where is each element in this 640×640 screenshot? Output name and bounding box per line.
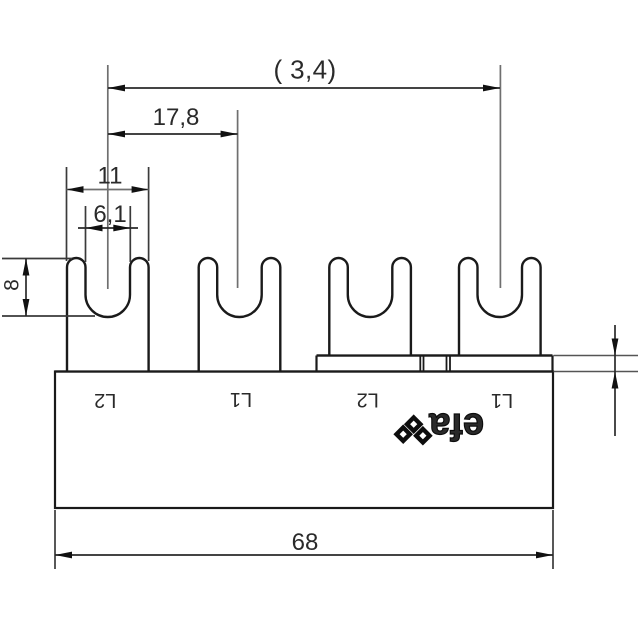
dimension 11 line (67, 189, 149, 191)
label L2 pole 1 (rotated 180) (94, 389, 116, 411)
dimension 17,8 line (108, 133, 238, 135)
label L1 pole 4 (rotated 180) (491, 389, 513, 411)
dimension 6,1 line (78, 227, 138, 229)
label L1 pole 2 (rotated 180) (230, 388, 252, 410)
dimension 68 extension lines (54, 510, 56, 569)
label L2 pole 3 (rotated 180) (357, 389, 379, 411)
fork terminal 3 (329, 258, 411, 357)
fork terminal 2 (199, 258, 281, 373)
efa logo diamond bottom-right (416, 429, 429, 442)
svg-text:L1: L1 (230, 388, 252, 410)
plate left edge (315, 356, 317, 372)
efa logo diamond top (407, 418, 420, 431)
end-cap plate strip top edge (317, 354, 553, 356)
dimension 6,1 extension lines (85, 206, 87, 262)
svg-text:L2: L2 (94, 389, 116, 411)
dimension 11 extension lines (66, 167, 68, 261)
svg-text:( 3,4): ( 3,4) (273, 55, 336, 85)
efa logo text (rotated 180) (428, 405, 484, 447)
fork terminal 1 (67, 258, 149, 373)
plate junction lines (419, 356, 421, 372)
svg-text:6,1: 6,1 (93, 201, 126, 228)
fork terminal 4 (459, 258, 541, 357)
dimension 8 line (25, 259, 27, 317)
extension line fork4 slot centre (499, 65, 501, 288)
body top edge (drawn across fork bases) (55, 370, 553, 372)
extension line fork2 slot centre (237, 110, 239, 288)
plate right edge (551, 356, 553, 372)
dimension 8 extension lines (left) (2, 258, 72, 260)
svg-text:8: 8 (1, 279, 24, 291)
svg-text:68: 68 (292, 529, 319, 556)
dimension ( 3,4) line (108, 87, 500, 89)
svg-text:L2: L2 (357, 389, 379, 411)
svg-text:L1: L1 (491, 389, 513, 411)
efa logo diamond bottom-left (397, 428, 410, 441)
plate strip top edge (drawn across fork bases) (317, 354, 553, 356)
svg-text:11: 11 (98, 163, 123, 190)
svg-text:17,8: 17,8 (153, 104, 200, 131)
body outline (busbar housing) (55, 372, 553, 509)
thickness dimension line (614, 325, 616, 436)
svg-text:efa: efa (428, 405, 484, 447)
thickness dimension (right) extension lines (554, 355, 639, 357)
dimension 68 line (55, 554, 553, 556)
extension line fork1 slot centre (107, 65, 109, 289)
